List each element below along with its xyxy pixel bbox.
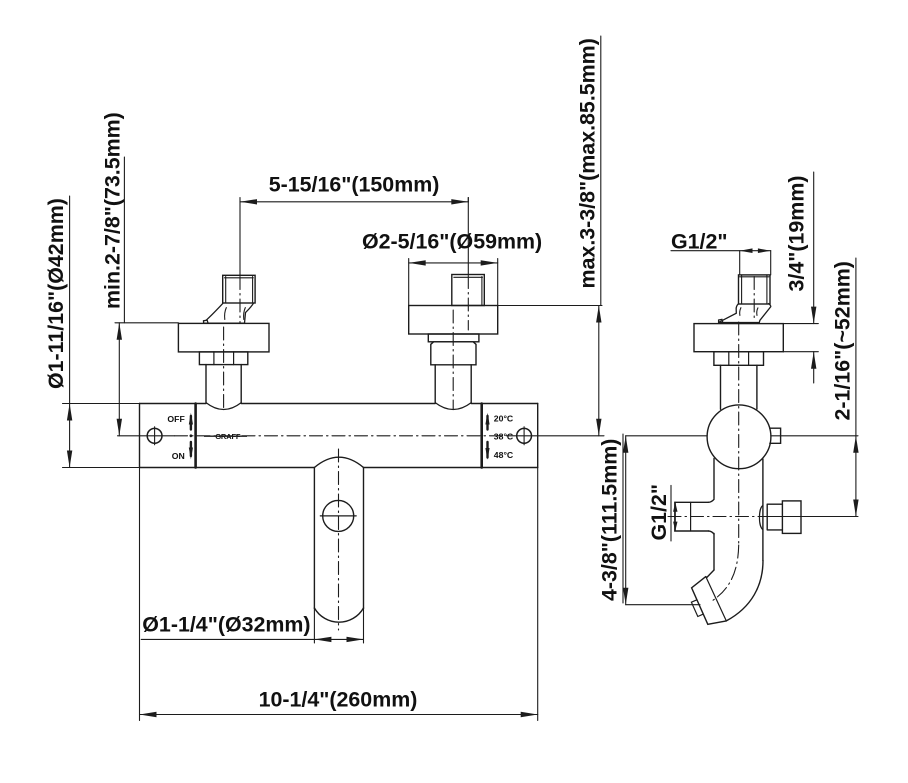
left connector hex nut — [199, 352, 247, 365]
svg-text:max.3-3/8"(max.85.5mm): max.3-3/8"(max.85.5mm) — [576, 38, 600, 288]
bend centerline — [711, 545, 739, 602]
arrow 150 right — [451, 199, 468, 204]
right connector nut — [431, 342, 476, 365]
arrow Ø42 up — [67, 404, 72, 421]
arrow Ø59 left — [409, 260, 426, 265]
dim 150mm line — [240, 198, 468, 203]
left stop-valve stem block — [223, 275, 255, 303]
outlets centerline — [668, 516, 858, 518]
dim min 2-7/8 — [115, 157, 178, 436]
arrow offon down — [189, 448, 193, 460]
arrow Ø42 down — [67, 451, 72, 468]
arrow 34 up — [811, 352, 816, 369]
svg-text:Ø1-11/16"(Ø42mm): Ø1-11/16"(Ø42mm) — [44, 198, 68, 389]
arrow 438 up — [623, 436, 628, 453]
right screw — [517, 427, 532, 445]
arrow 34 down — [811, 307, 816, 324]
arrow max up — [596, 306, 601, 323]
right flange centerline — [452, 310, 454, 409]
right outlet fitting — [782, 501, 801, 534]
main vertical centerline — [738, 322, 740, 545]
left flange centerline — [223, 327, 225, 409]
OFF/ON arrow line — [190, 416, 192, 456]
dim max 3-3/8 — [498, 36, 602, 436]
svg-text:2-1/16"(~52mm): 2-1/16"(~52mm) — [831, 261, 855, 420]
right connector stem square — [452, 275, 485, 306]
svg-text:10-1/4"(260mm): 10-1/4"(260mm) — [259, 688, 418, 712]
dim G1/2 top — [671, 251, 771, 275]
left stem centerline — [239, 198, 241, 323]
spout tube — [314, 468, 363, 609]
thread centerline — [753, 277, 755, 319]
right stem centerline — [467, 198, 469, 331]
arrow G12low down — [673, 522, 677, 531]
dim G1/2 lower — [670, 485, 672, 541]
arrow min up — [117, 323, 122, 340]
svg-text:Ø1-1/4"(Ø32mm): Ø1-1/4"(Ø32mm) — [142, 613, 310, 637]
thermostat ball body — [707, 405, 771, 469]
dim Ø32 — [141, 638, 363, 640]
arrow Ø59 right — [481, 260, 498, 265]
side view thread G1/2 — [739, 275, 771, 304]
right cap partition line — [480, 404, 483, 468]
svg-text:3/4"(19mm): 3/4"(19mm) — [785, 176, 809, 292]
arrow max down — [596, 419, 601, 436]
side view wall flange — [694, 324, 783, 352]
diverter knob — [320, 500, 356, 531]
left screw — [147, 427, 162, 445]
side view hex nut — [714, 352, 764, 366]
right outlet boss — [759, 505, 762, 529]
small labels — [167, 414, 514, 461]
arrow min down — [117, 419, 122, 436]
spout centerline — [338, 449, 340, 630]
right connector pipe — [435, 365, 471, 410]
dim Ø59 line — [409, 259, 498, 306]
spout bell intersection curve — [314, 457, 363, 467]
svg-text:48°C: 48°C — [494, 450, 514, 460]
arrow Ø32 left — [314, 637, 331, 642]
right connector flange (front view) — [409, 306, 498, 335]
aerator — [691, 600, 703, 617]
left outlet fitting G1/2 — [675, 499, 714, 534]
arrow G12top right — [758, 248, 771, 253]
arrowheads — [67, 199, 859, 717]
arrow offon up — [189, 413, 193, 425]
arrow G12low up — [673, 502, 677, 511]
arrow 438 down — [623, 588, 628, 605]
dim 4-3/8 — [623, 434, 700, 605]
body (front view) outline — [140, 404, 538, 468]
body horizontal centerline — [118, 435, 859, 437]
arrow 260 left — [140, 712, 157, 717]
dim Ø42 line — [63, 196, 140, 468]
side view lever — [719, 304, 771, 323]
right outlet neck — [767, 504, 782, 530]
arrow G12top left — [740, 248, 753, 253]
svg-text:38°C: 38°C — [494, 432, 514, 442]
spout end cap — [692, 577, 727, 625]
spout rounded end — [314, 608, 363, 622]
lower column — [714, 459, 763, 571]
dim 260mm — [140, 468, 538, 721]
temps arrow line — [486, 416, 488, 458]
arrow 2116 up — [853, 436, 858, 453]
arrow 150 left — [240, 199, 257, 204]
dim 3/4 (19mm) — [783, 172, 818, 383]
GRAFF logo — [204, 432, 247, 441]
arrow 260 right — [521, 712, 538, 717]
arrow 2116 down — [853, 500, 858, 517]
svg-text:ON: ON — [172, 451, 185, 461]
svg-text:G1/2": G1/2" — [647, 484, 671, 541]
arrow temps up — [485, 413, 489, 425]
svg-text:Ø2-5/16"(Ø59mm): Ø2-5/16"(Ø59mm) — [362, 230, 542, 254]
right connector ring — [428, 334, 479, 342]
spout bend chamfer — [707, 570, 714, 577]
dim 2-1/16 — [855, 258, 857, 517]
left cap partition line — [194, 404, 197, 468]
arrow temps down — [485, 448, 489, 460]
svg-text:min.2-7/8"(73.5mm): min.2-7/8"(73.5mm) — [100, 112, 124, 309]
left connector pipe — [206, 365, 241, 410]
ball side tab — [770, 428, 781, 443]
left stop-valve lever — [204, 303, 254, 323]
svg-text:4-3/8"(111.5mm): 4-3/8"(111.5mm) — [598, 439, 622, 601]
left connector flange (front view) — [178, 323, 269, 352]
dimension texts — [44, 38, 855, 711]
spout bend outer curve — [726, 561, 763, 621]
svg-text:G1/2": G1/2" — [671, 230, 728, 254]
svg-text:20°C: 20°C — [494, 414, 514, 424]
arrow Ø32 right — [347, 637, 364, 642]
side view pipe — [721, 365, 757, 409]
svg-text:5-15/16"(150mm): 5-15/16"(150mm) — [269, 173, 440, 197]
svg-text:OFF: OFF — [167, 414, 184, 424]
